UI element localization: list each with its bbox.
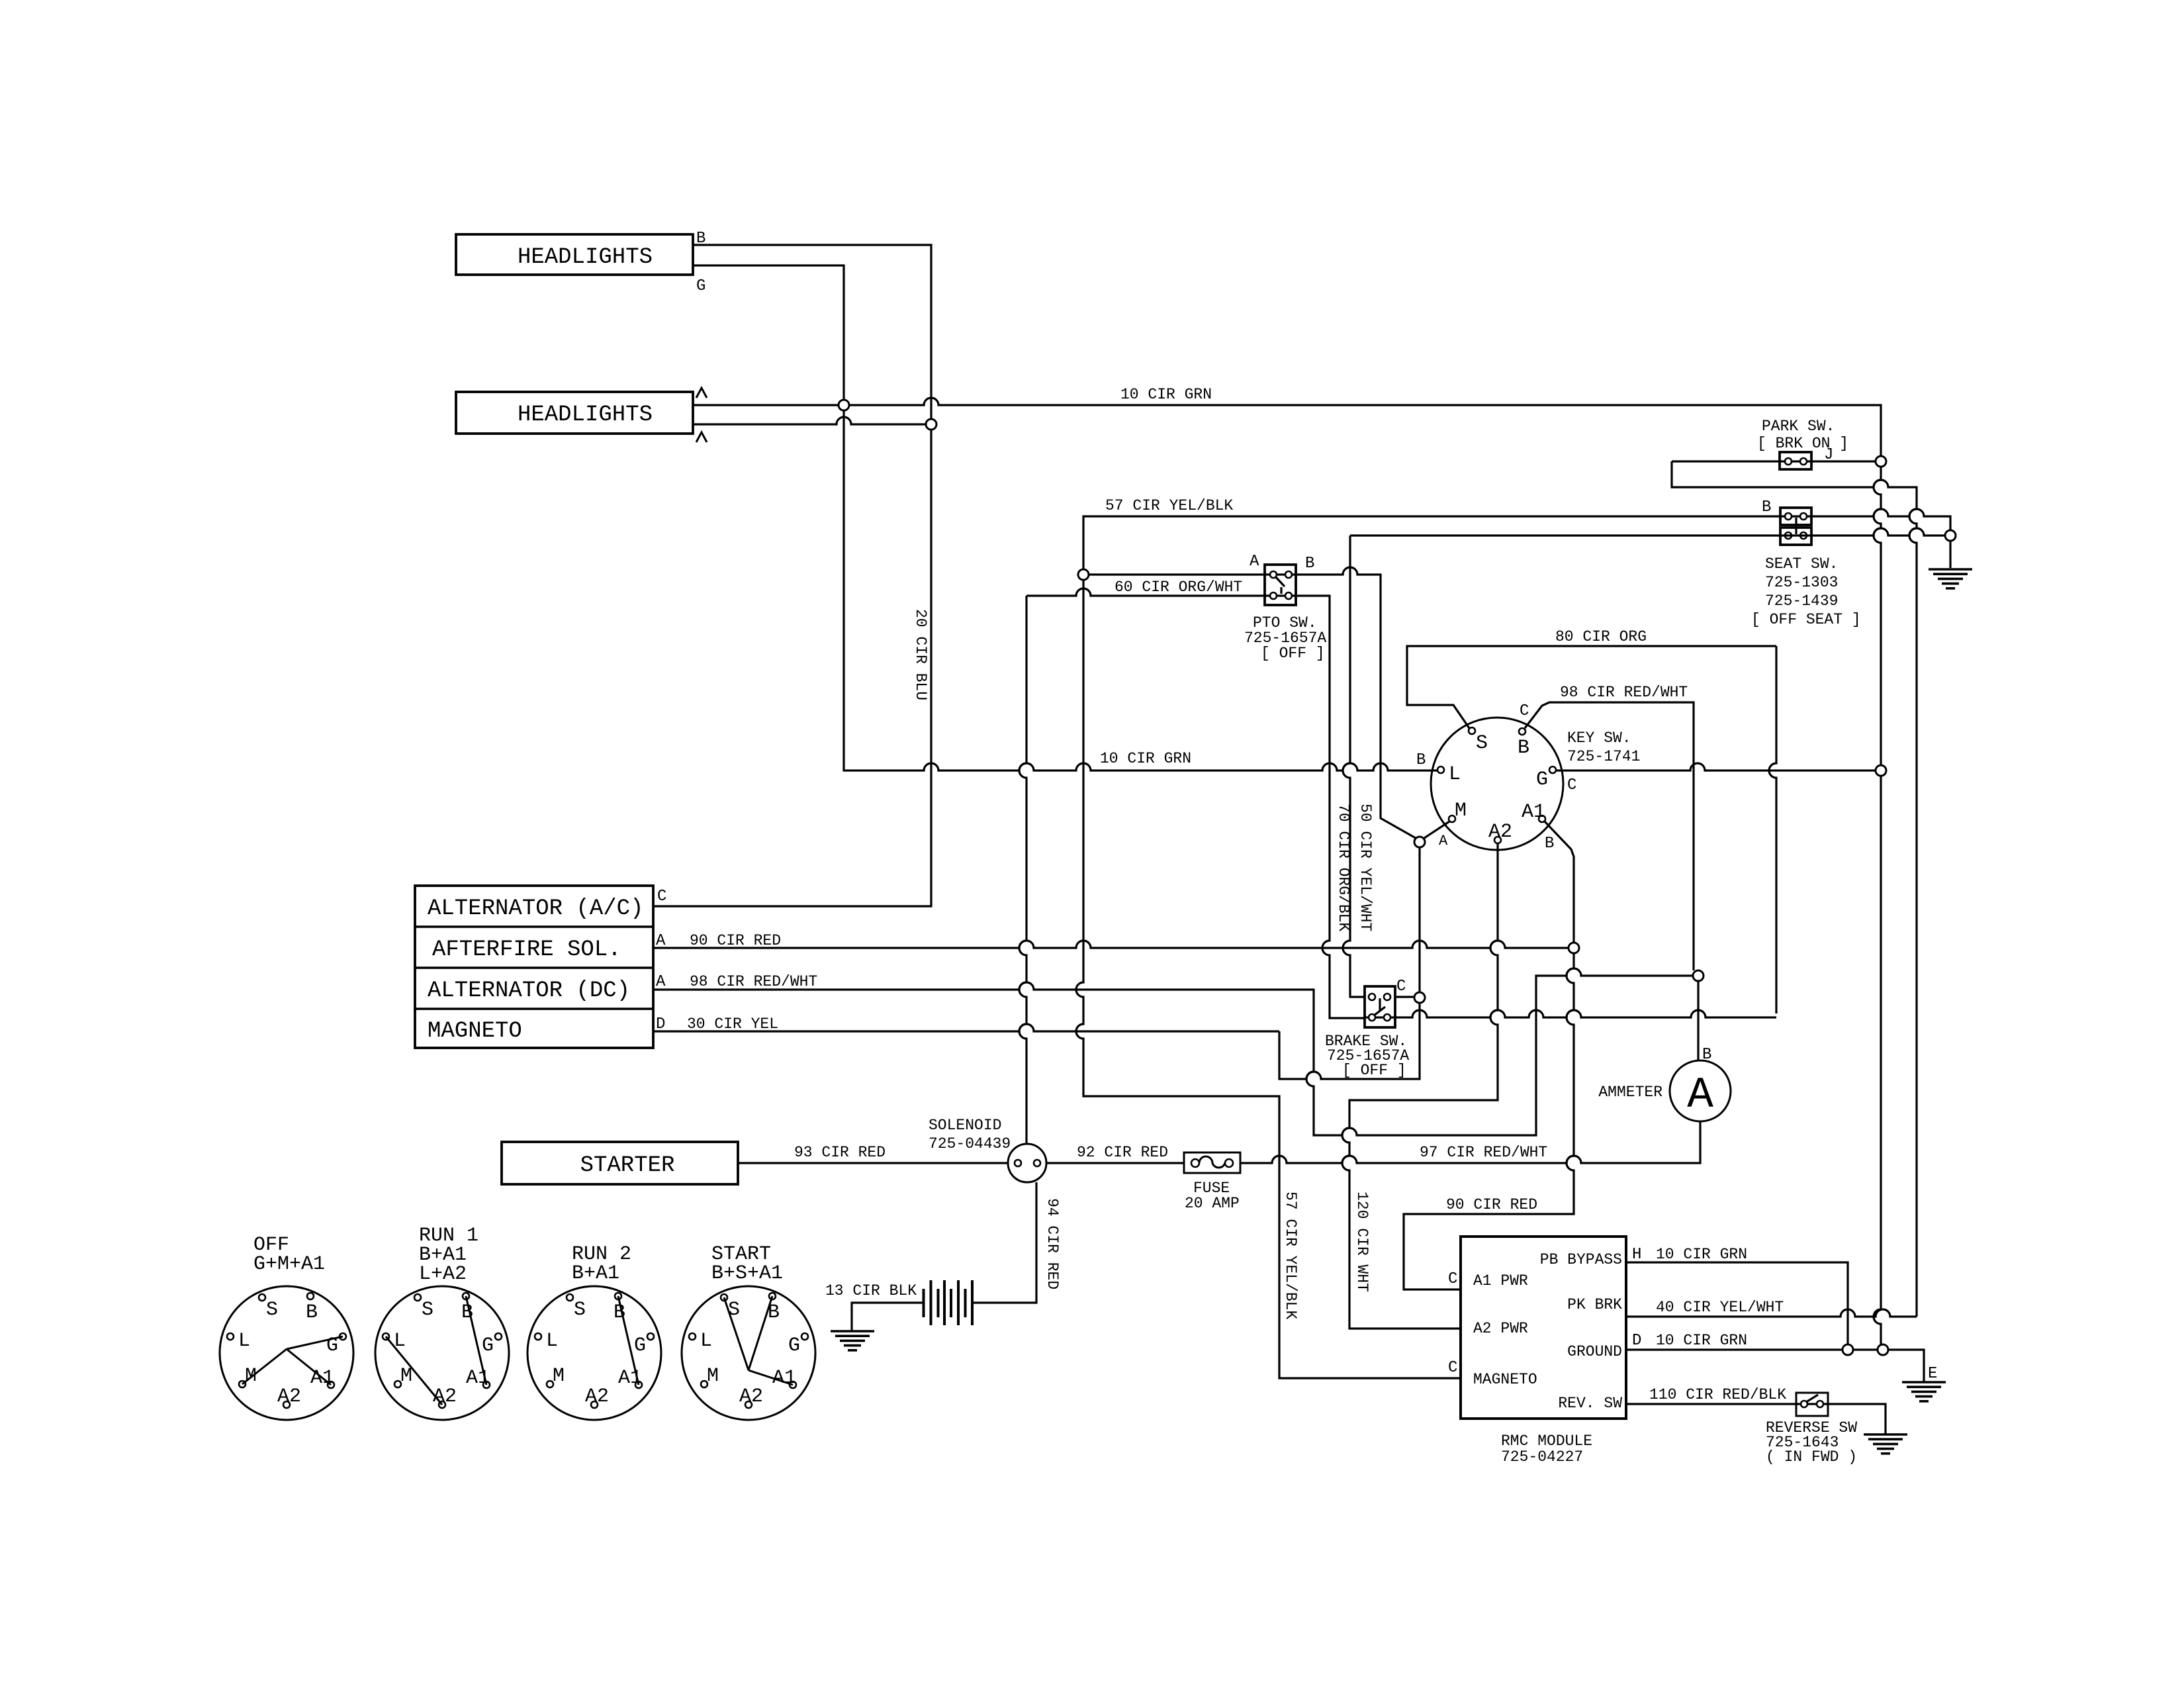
key position diagram OFF	[220, 1234, 353, 1420]
svg-text:C: C	[1448, 1359, 1457, 1377]
PTO lever	[1275, 577, 1285, 586]
svg-text:MAGNETO: MAGNETO	[1473, 1371, 1537, 1388]
key terminal M	[1449, 816, 1455, 822]
svg-text:B+A1: B+A1	[572, 1262, 619, 1285]
svg-text:B: B	[1762, 498, 1771, 516]
svg-text:MAGNETO: MAGNETO	[428, 1019, 522, 1044]
PTO switch body	[1265, 565, 1296, 605]
wire REV SW 110 CIR RED/BLK	[1626, 1404, 1886, 1434]
wire 30 CIR YEL	[653, 1024, 1279, 1031]
junction 98 / ammeter B	[1693, 970, 1704, 981]
headlights box 1	[456, 234, 693, 275]
svg-text:M: M	[707, 1365, 719, 1387]
svg-text:10 CIR GRN: 10 CIR GRN	[1120, 386, 1212, 403]
wire 10 CIR GRN right vertical upper	[1874, 467, 1881, 765]
divider 1	[415, 925, 653, 927]
svg-text:A1: A1	[772, 1367, 796, 1389]
junction 10 CIR GRN right	[1876, 765, 1886, 776]
svg-text:S: S	[1476, 732, 1488, 755]
svg-text:ALTERNATOR (DC): ALTERNATOR (DC)	[428, 978, 630, 1004]
wire key A2 to RMC A2 PWR	[1342, 843, 1498, 1329]
wire key M diagonal	[1424, 821, 1449, 838]
svg-text:S: S	[574, 1299, 586, 1321]
junction PB/ground	[1843, 1344, 1853, 1355]
wire brake top-right to junction	[1395, 996, 1414, 998]
svg-text:A1: A1	[1522, 801, 1545, 823]
svg-text:HEADLIGHTS: HEADLIGHTS	[518, 245, 653, 270]
svg-text:[ OFF ]: [ OFF ]	[1261, 645, 1325, 662]
svg-text:A2 PWR: A2 PWR	[1473, 1320, 1528, 1337]
wire battery negative to ground	[852, 1303, 923, 1331]
svg-text:G: G	[696, 277, 705, 295]
divider 3	[415, 1008, 653, 1009]
svg-text:60 CIR ORG/WHT: 60 CIR ORG/WHT	[1115, 579, 1242, 596]
svg-text:57 CIR YEL/BLK: 57 CIR YEL/BLK	[1282, 1192, 1299, 1319]
svg-text:L: L	[238, 1330, 250, 1352]
svg-text:50 CIR YEL/WHT: 50 CIR YEL/WHT	[1357, 804, 1374, 931]
svg-text:B: B	[1518, 737, 1529, 759]
ground seat switch	[1929, 569, 1972, 588]
wire GROUND D 10 CIR GRN to E	[1626, 1350, 1924, 1382]
wire 57 CIR YEL/BLK to seat top	[1083, 509, 1950, 569]
svg-text:S: S	[422, 1299, 433, 1321]
key terminal S	[1469, 727, 1475, 734]
svg-text:725-1741: 725-1741	[1567, 748, 1640, 765]
svg-text:B+S+A1: B+S+A1	[711, 1262, 783, 1285]
junction J on 10 CIR GRN vertical	[1876, 456, 1886, 467]
svg-text:B: B	[1305, 555, 1314, 573]
svg-text:30 CIR YEL: 30 CIR YEL	[687, 1015, 778, 1033]
svg-text:20 CIR BLU: 20 CIR BLU	[912, 609, 929, 700]
wire 98 CIR RED/WHT from key B	[1525, 702, 1694, 970]
wire 92 CIR RED	[1046, 1162, 1184, 1164]
svg-text:KEY SW.: KEY SW.	[1567, 729, 1631, 747]
wire 90/A1 to RMC A1 PWR	[1404, 953, 1574, 1289]
wire park return to PK BRK	[1672, 461, 1917, 1317]
svg-text:L: L	[700, 1330, 712, 1352]
svg-text:A1 PWR: A1 PWR	[1473, 1272, 1528, 1289]
component box stack	[415, 886, 653, 1048]
wire M junction down	[1418, 847, 1420, 992]
svg-text:M: M	[1455, 800, 1467, 822]
junction 60 CIR ORG/WHT	[1078, 569, 1089, 580]
RMC module box	[1461, 1237, 1626, 1419]
ammeter	[1670, 1060, 1731, 1121]
wire brake bottom row	[1365, 1010, 1776, 1017]
svg-text:[ OFF SEAT ]: [ OFF SEAT ]	[1751, 611, 1861, 628]
svg-text:ALTERNATOR (A/C): ALTERNATOR (A/C)	[428, 896, 643, 921]
junction 10 GRN vertical/ground	[1878, 1344, 1888, 1355]
junction brake C	[1414, 992, 1425, 1003]
wire key A1 down	[1545, 821, 1574, 943]
brake lever	[1374, 1007, 1385, 1015]
svg-text:90 CIR RED: 90 CIR RED	[1446, 1196, 1537, 1213]
junction M / PTO B	[1414, 837, 1425, 847]
svg-text:A2: A2	[739, 1385, 763, 1408]
svg-text:98 CIR RED/WHT: 98 CIR RED/WHT	[1560, 684, 1688, 701]
wire 98 CIR RED/WHT to ammeter	[653, 968, 1693, 1135]
svg-text:A: A	[656, 973, 666, 991]
fuse body	[1184, 1152, 1240, 1173]
svg-text:A2: A2	[585, 1385, 609, 1408]
svg-text:RMC MODULE: RMC MODULE	[1501, 1432, 1592, 1450]
wire headlight1 B to 20 CIR BLU	[693, 245, 931, 419]
key position diagram START	[682, 1243, 815, 1420]
wire ammeter top lead	[1697, 981, 1699, 1060]
svg-text:L+A2: L+A2	[419, 1263, 467, 1286]
svg-text:20 AMP: 20 AMP	[1185, 1195, 1240, 1212]
solenoid SOLENOID 725-04439	[1008, 1144, 1046, 1182]
seat switch connector	[1795, 518, 1797, 534]
svg-text:PK BRK: PK BRK	[1567, 1296, 1622, 1313]
svg-text:A1: A1	[466, 1367, 490, 1389]
wire brake C to 30 CIR YEL link	[1279, 1003, 1420, 1079]
starter box	[502, 1142, 738, 1184]
wire PK BRK 40 CIR YEL/WHT	[1626, 1309, 1917, 1317]
seat switch body bottom	[1780, 528, 1811, 545]
wire PB BYPASS H 10 CIR GRN	[1626, 1262, 1848, 1344]
wire 90 CIR RED	[653, 941, 1569, 948]
svg-text:G: G	[1536, 769, 1548, 791]
svg-text:S: S	[266, 1299, 278, 1321]
svg-text:L: L	[1449, 763, 1461, 786]
svg-text:E: E	[1928, 1365, 1937, 1383]
svg-text:SEAT SW.: SEAT SW.	[1765, 555, 1838, 573]
svg-text:92 CIR RED: 92 CIR RED	[1077, 1144, 1168, 1161]
svg-text:C: C	[1448, 1270, 1457, 1288]
svg-text:[ BRK ON ]: [ BRK ON ]	[1757, 435, 1848, 452]
svg-text:94 CIR RED: 94 CIR RED	[1044, 1198, 1061, 1289]
wire 93 CIR RED	[738, 1162, 1009, 1164]
junction 90 CIR RED / A1	[1569, 943, 1579, 953]
wire 80 CIR ORG from key S	[1407, 646, 1776, 728]
key terminal L	[1437, 767, 1444, 773]
seat switch body top	[1780, 508, 1811, 525]
svg-text:A: A	[1250, 553, 1259, 571]
svg-text:725-1303: 725-1303	[1765, 574, 1838, 591]
wire 92/97 CIR RED to ammeter	[1240, 1121, 1700, 1163]
svg-text:C: C	[657, 888, 666, 906]
svg-text:G: G	[788, 1335, 800, 1357]
svg-text:PB BYPASS: PB BYPASS	[1540, 1251, 1622, 1268]
svg-text:10 CIR GRN: 10 CIR GRN	[1100, 750, 1191, 767]
brake lever bar	[1379, 998, 1381, 1010]
svg-text:L: L	[546, 1330, 558, 1352]
svg-text:40 CIR YEL/WHT: 40 CIR YEL/WHT	[1656, 1299, 1784, 1316]
wire 60 CIR ORG/WHT PTO bottom row to brake	[1026, 588, 1365, 1018]
park switch body	[1780, 452, 1811, 469]
svg-text:10 CIR GRN: 10 CIR GRN	[1656, 1246, 1747, 1263]
svg-text:B: B	[1545, 835, 1554, 853]
svg-text:725-04227: 725-04227	[1501, 1448, 1583, 1466]
svg-text:725-1439: 725-1439	[1765, 592, 1838, 610]
svg-text:AMMETER: AMMETER	[1598, 1084, 1662, 1101]
svg-text:80 CIR ORG: 80 CIR ORG	[1555, 628, 1647, 645]
svg-text:G: G	[482, 1335, 494, 1357]
ground E	[1902, 1382, 1946, 1401]
key position diagram RUN 2	[527, 1243, 661, 1420]
wire 10 CIR GRN vertical left	[844, 410, 849, 771]
svg-text:[ OFF ]: [ OFF ]	[1342, 1062, 1406, 1079]
svg-text:SOLENOID: SOLENOID	[929, 1117, 1001, 1134]
wire 20 CIR BLU down to alternator AC C	[653, 430, 931, 906]
wire park switch row	[1672, 460, 1876, 462]
svg-text:REV. SW: REV. SW	[1558, 1395, 1622, 1412]
key terminal B	[1519, 728, 1525, 735]
wire to seat ground	[1949, 541, 1951, 568]
svg-text:B: B	[1702, 1046, 1711, 1064]
wire 80 CIR ORG vertical	[1769, 646, 1776, 1013]
svg-text:120 CIR WHT: 120 CIR WHT	[1353, 1192, 1371, 1292]
wire 60 net PTO top row to M junction	[1089, 567, 1416, 838]
svg-text:13 CIR BLK: 13 CIR BLK	[825, 1282, 917, 1299]
svg-text:B: B	[1416, 751, 1426, 769]
wire 50 CIR YEL/WHT to brake top-left	[1343, 536, 1365, 997]
key terminal A1	[1539, 816, 1545, 822]
svg-text:90 CIR RED: 90 CIR RED	[690, 932, 781, 949]
svg-text:( IN FWD ): ( IN FWD )	[1766, 1448, 1857, 1466]
svg-text:A2: A2	[277, 1385, 301, 1408]
key switch KEY SW. 725-1741	[1431, 718, 1563, 850]
wire 10 CIR GRN top	[694, 398, 1881, 456]
svg-text:PARK SW.: PARK SW.	[1762, 418, 1835, 435]
wire 10 CIR GRN right vertical lower	[1874, 776, 1881, 1344]
svg-text:D: D	[1632, 1332, 1641, 1350]
svg-text:10 CIR GRN: 10 CIR GRN	[1656, 1332, 1747, 1349]
pin A headlight2 bottom	[696, 432, 707, 442]
svg-text:G+M+A1: G+M+A1	[253, 1253, 325, 1276]
svg-text:A1: A1	[618, 1367, 642, 1389]
svg-text:HEADLIGHTS: HEADLIGHTS	[518, 402, 653, 428]
battery	[924, 1280, 973, 1325]
svg-text:725-04439: 725-04439	[929, 1135, 1011, 1152]
svg-text:C: C	[1567, 776, 1576, 794]
svg-text:C: C	[1520, 702, 1529, 720]
svg-text:A: A	[1687, 1070, 1713, 1120]
reverse switch body	[1796, 1393, 1828, 1416]
svg-text:57 CIR YEL/BLK: 57 CIR YEL/BLK	[1105, 497, 1233, 514]
headlights box 2	[456, 392, 693, 434]
svg-text:AFTERFIRE SOL.: AFTERFIRE SOL.	[432, 937, 621, 962]
brake switch body	[1365, 986, 1395, 1027]
svg-text:97 CIR RED/WHT: 97 CIR RED/WHT	[1420, 1144, 1547, 1161]
divider 2	[415, 966, 653, 968]
key terminal G	[1549, 767, 1556, 773]
wire 57 CIR YEL/BLK feed to RMC magneto	[1076, 580, 1461, 1378]
wire headlight2 A lower	[694, 417, 926, 424]
wire 70 CIR ORG/BLK seat bottom	[1350, 528, 1945, 536]
svg-text:G: G	[634, 1335, 646, 1357]
svg-text:A2: A2	[1488, 821, 1512, 843]
svg-text:S: S	[728, 1299, 740, 1321]
wire 10 CIR GRN from key G	[1556, 763, 1876, 771]
key position diagram RUN 1	[375, 1225, 509, 1420]
PTO lever bar	[1280, 587, 1282, 594]
svg-text:A: A	[1439, 833, 1448, 849]
svg-text:J: J	[1824, 446, 1833, 464]
svg-text:GROUND: GROUND	[1567, 1343, 1622, 1360]
svg-text:STARTER: STARTER	[580, 1153, 675, 1178]
wire 60 CIR ORG/WHT to solenoid	[1019, 596, 1026, 1144]
svg-text:M: M	[553, 1365, 565, 1387]
junction 20 CIR BLU / A	[926, 419, 936, 430]
svg-text:B: B	[306, 1301, 318, 1324]
svg-text:110 CIR RED/BLK: 110 CIR RED/BLK	[1649, 1386, 1786, 1403]
ground reverse switch	[1864, 1434, 1907, 1454]
svg-text:H: H	[1632, 1246, 1641, 1264]
key terminal A2	[1494, 837, 1501, 843]
reverse lever	[1806, 1395, 1818, 1402]
svg-text:93 CIR RED: 93 CIR RED	[794, 1144, 886, 1161]
junction seat ground	[1945, 530, 1956, 541]
pin A headlight2 top	[696, 388, 707, 398]
svg-text:98 CIR RED/WHT: 98 CIR RED/WHT	[690, 973, 817, 990]
wire 10 CIR GRN to key L	[849, 763, 1437, 771]
wire 94 CIR RED to battery	[972, 1182, 1036, 1303]
junction G / A net	[839, 400, 849, 410]
wire headlight1 G	[693, 265, 844, 400]
ground battery	[831, 1331, 874, 1350]
svg-text:M: M	[400, 1365, 412, 1387]
svg-text:C: C	[1396, 978, 1406, 996]
